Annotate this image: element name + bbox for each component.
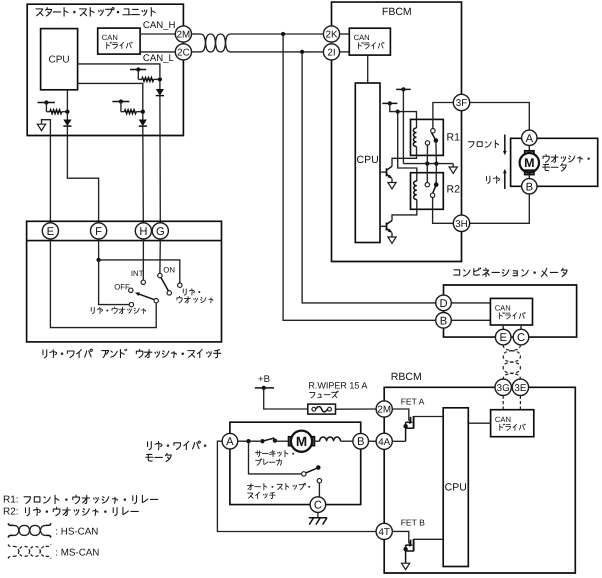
connector pin 4A bbox=[376, 433, 392, 449]
inductor (thermal coil) bbox=[320, 437, 341, 441]
connector pin H bbox=[135, 223, 151, 239]
wire CAN_L tap to meter D bbox=[302, 52, 435, 303]
switch contact washer-right bbox=[178, 283, 182, 287]
circuit breaker bbox=[260, 439, 264, 443]
resistor (F pull) bbox=[46, 111, 50, 113]
connector pin D bbox=[436, 295, 452, 311]
wire CPU to node G1 bbox=[78, 64, 160, 77]
wire tick T2 to node R bbox=[390, 103, 396, 111]
connector pin 3H bbox=[453, 215, 469, 231]
svg-text:R1: R1 bbox=[447, 132, 461, 144]
wire tick T1 to ground row bbox=[402, 89, 404, 163]
relay R2 contact (to 3H) bbox=[430, 193, 434, 197]
relay R2 armature bbox=[433, 185, 436, 193]
wire Q2 emitter to ground bbox=[391, 233, 393, 237]
ground (Q2) bbox=[388, 237, 396, 243]
wire tick to resistor G bbox=[137, 70, 139, 80]
diode D3 bbox=[156, 89, 164, 96]
rear wiper and washer switch box bbox=[27, 221, 222, 342]
svg-text:CAN: CAN bbox=[354, 33, 370, 42]
auto-stop switch contact to C bbox=[317, 479, 321, 483]
washer switch blade (ON) bbox=[161, 278, 168, 291]
connector pin B (meter) bbox=[436, 313, 452, 329]
svg-text:4T: 4T bbox=[378, 527, 389, 538]
connector pin G bbox=[152, 223, 168, 239]
connector pin 2M bbox=[175, 26, 191, 42]
connector pin B (wiper motor) bbox=[353, 433, 369, 449]
svg-text:2M: 2M bbox=[177, 30, 191, 41]
wire breaker to motor bbox=[275, 440, 288, 442]
switch contact washer-left bbox=[129, 302, 133, 306]
svg-text:FBCM: FBCM bbox=[382, 6, 412, 18]
diode D2 bbox=[139, 120, 147, 127]
node tick G bbox=[130, 69, 146, 71]
connector pin 3F bbox=[453, 94, 469, 110]
wire 3F to R1 contact bbox=[433, 103, 453, 129]
wire diode D2 to connector H bbox=[142, 126, 145, 223]
svg-text:FET A: FET A bbox=[401, 397, 425, 407]
CPU U3 box (RBCM) bbox=[443, 408, 468, 567]
junction node CAN_H tap bbox=[281, 32, 285, 36]
svg-text:ON: ON bbox=[163, 266, 175, 275]
svg-text:D: D bbox=[439, 298, 447, 310]
legend HS-CAN twisted pair symbol bbox=[8, 523, 13, 525]
svg-text:2K: 2K bbox=[326, 30, 338, 41]
svg-text:B: B bbox=[357, 436, 364, 448]
wire node G1 to diode bbox=[159, 82, 161, 90]
junction node CAN_L tap bbox=[300, 50, 304, 54]
label auto-stop switch (katakana) bbox=[247, 484, 253, 490]
svg-text:CAN: CAN bbox=[495, 303, 511, 312]
wire A to breaker bbox=[238, 440, 260, 442]
auto-stop switch contact left bbox=[302, 472, 306, 476]
rear motor brush right bbox=[311, 437, 315, 446]
connector pin C (meter) bbox=[513, 329, 529, 345]
wire F to node F2 bbox=[98, 239, 100, 260]
node tick F bbox=[38, 102, 55, 104]
wire ground row to ground bbox=[452, 164, 454, 167]
dashed wire 3E to CAN driver (RBCM) bbox=[519, 396, 521, 410]
resistor (H pull) bbox=[121, 111, 125, 113]
node tick H bbox=[112, 101, 129, 103]
FET B mosfet bbox=[392, 531, 410, 542]
svg-text:F: F bbox=[95, 226, 102, 238]
dashed wire 3G to CAN driver (RBCM) bbox=[502, 396, 504, 410]
node tick T1 bbox=[396, 88, 411, 90]
svg-text:3G: 3G bbox=[497, 383, 510, 394]
svg-text:R2: R2 bbox=[447, 184, 461, 196]
svg-text:CAN_H: CAN_H bbox=[143, 20, 176, 31]
CAN driver box (combination meter) bbox=[490, 298, 532, 325]
rear wiper motor M2 bbox=[291, 431, 312, 452]
svg-text:2I: 2I bbox=[327, 47, 335, 58]
wire H to INT contact bbox=[142, 239, 144, 280]
connector pin A (wiper motor) bbox=[222, 433, 238, 449]
CAN driver box (RBCM) bbox=[491, 410, 534, 437]
switch contact OFF bbox=[129, 288, 133, 292]
connector pin 2M (RBCM) bbox=[376, 401, 392, 417]
wire node A1 to auto-stop switch bbox=[249, 441, 302, 474]
wire R2 coil to Q2 collector bbox=[392, 200, 417, 221]
svg-text:M: M bbox=[524, 156, 534, 170]
transistor Q1 bbox=[380, 171, 387, 173]
connector pin F bbox=[91, 223, 107, 239]
relay R1 coil bbox=[413, 128, 416, 147]
wire E to wiper pivot bbox=[50, 239, 156, 328]
washer motor brush bottom bbox=[525, 170, 534, 174]
wire CAN driver to C bbox=[520, 325, 522, 329]
wire node R to relay R1 coil bbox=[398, 112, 417, 128]
ground (relay row) bbox=[449, 167, 457, 173]
svg-text:CAN: CAN bbox=[102, 33, 118, 42]
washer motor M1 bbox=[520, 153, 539, 172]
svg-text:R1:: R1: bbox=[3, 495, 19, 506]
start-stop unit box bbox=[27, 4, 183, 135]
wire CAN_H bus right bbox=[231, 33, 323, 35]
svg-text:H: H bbox=[139, 226, 147, 238]
FET A mosfet bbox=[392, 409, 410, 420]
CPU U1 box (start-stop unit) bbox=[41, 29, 78, 90]
relay R1 box bbox=[411, 119, 444, 155]
node +B terminal bbox=[255, 387, 274, 389]
svg-text:RBCM: RBCM bbox=[391, 371, 422, 383]
wire C to chassis ground bbox=[317, 512, 319, 517]
wire 2K to CAN driver bbox=[340, 33, 350, 35]
relay R1 contact (to 3F) bbox=[431, 129, 435, 133]
label front (katakana) with arrow bbox=[468, 142, 474, 148]
wire Q1 emitter to ground bbox=[391, 178, 393, 182]
wire R1 pivot to ground row bbox=[435, 141, 438, 164]
junction node A1 bbox=[246, 439, 250, 443]
wire ground row to R2 contact bbox=[426, 164, 428, 183]
junction node FET B source bbox=[403, 547, 407, 551]
junction node GR1 bbox=[425, 161, 429, 165]
label circuit breaker (katakana) bbox=[255, 451, 261, 457]
wire 4A to FET A source bbox=[392, 440, 405, 442]
wire ground to connector E bbox=[42, 120, 51, 223]
ground (FET B) bbox=[402, 563, 410, 569]
wire coil to B bbox=[341, 440, 353, 442]
svg-text:OFF: OFF bbox=[114, 282, 130, 291]
connector pin 3E bbox=[512, 379, 528, 395]
connector pin B (washer) bbox=[522, 179, 537, 194]
svg-text:3F: 3F bbox=[456, 98, 467, 109]
connector pin 4T bbox=[376, 523, 392, 539]
junction node G1 bbox=[158, 77, 162, 81]
svg-text:E: E bbox=[47, 226, 54, 238]
wire wiper A to 4T bbox=[217, 441, 376, 531]
connector pin E (meter) bbox=[495, 329, 511, 345]
connector pin 3G bbox=[495, 379, 511, 395]
wire CPU to node H1 bbox=[78, 83, 143, 109]
svg-text:CPU: CPU bbox=[445, 482, 467, 494]
wire node H1 to diode bbox=[142, 114, 144, 120]
wire R1 contact to ground row bbox=[426, 145, 428, 164]
connector pin A (washer) bbox=[522, 130, 537, 145]
CAN driver box (start-stop unit) bbox=[98, 28, 140, 54]
svg-text:CPU: CPU bbox=[49, 54, 70, 65]
wire CPU to CAN driver (RBCM) bbox=[468, 422, 490, 424]
twisted pair MS-CAN meter to RBCM (dashed) bbox=[503, 345, 520, 379]
wire CAN_H bus left bbox=[192, 33, 201, 35]
wire node F2 down to washer contact left bbox=[99, 260, 130, 305]
svg-text:CAN_L: CAN_L bbox=[143, 53, 175, 64]
switch header line bbox=[27, 240, 222, 242]
wire washer motor to B bbox=[528, 175, 530, 179]
wire 2I to CAN driver bbox=[340, 51, 350, 53]
washer motor box bbox=[511, 138, 598, 186]
relay R1 contact NO bbox=[425, 141, 429, 145]
diode D1 bbox=[63, 120, 71, 127]
washer motor brush top bbox=[525, 151, 534, 155]
wire R1 coil to Q1 collector bbox=[392, 147, 417, 167]
connector pin E bbox=[42, 223, 58, 239]
svg-text:G: G bbox=[156, 226, 165, 238]
svg-text:2M: 2M bbox=[377, 405, 391, 416]
svg-text:FET B: FET B bbox=[401, 517, 425, 527]
wire wiper B to 4A bbox=[369, 440, 377, 442]
wire motor to coil bbox=[314, 440, 319, 442]
svg-text:CPU: CPU bbox=[357, 154, 379, 166]
label fuse (katakana) bbox=[310, 393, 315, 398]
label rear (katakana) with arrow bbox=[487, 176, 490, 183]
CPU U2 box (FBCM) bbox=[355, 83, 380, 243]
resistor (G pull) bbox=[138, 78, 142, 80]
connector pin 2I bbox=[323, 44, 339, 60]
connector pin C (wiper motor) bbox=[310, 497, 326, 513]
wire CAN driver to 2C bbox=[140, 51, 175, 53]
wire +B to fuse bbox=[264, 388, 308, 409]
rear wiper motor box bbox=[230, 422, 361, 504]
label washer motor (katakana) bbox=[543, 155, 549, 163]
svg-text:A: A bbox=[226, 436, 234, 448]
wire G to ON contact bbox=[159, 239, 161, 273]
CAN driver box (FBCM) bbox=[349, 28, 390, 55]
switch contact ON bbox=[158, 273, 162, 277]
junction node R bbox=[396, 109, 400, 113]
svg-text:B: B bbox=[440, 315, 447, 327]
label rear washer bottom (katakana) bbox=[91, 307, 94, 313]
fuse F1 bbox=[308, 404, 336, 414]
wire tick to resistor H bbox=[120, 102, 122, 112]
label combination meter (katakana) bbox=[454, 270, 460, 275]
wire FET B drain to CPU bbox=[414, 538, 444, 540]
svg-text:R2:: R2: bbox=[3, 507, 19, 518]
svg-text:3H: 3H bbox=[455, 219, 468, 230]
connector pin 2C bbox=[175, 44, 191, 60]
svg-text:3E: 3E bbox=[514, 383, 526, 394]
wire A to washer motor bbox=[528, 146, 530, 152]
junction node F1 bbox=[65, 110, 69, 114]
chassis ground (wiper motor) bbox=[309, 517, 327, 519]
junction node FET A source bbox=[403, 424, 407, 428]
rear motor brush left bbox=[289, 437, 293, 446]
node tick T2 bbox=[382, 102, 397, 104]
wire node R to relay R2 coil bbox=[398, 112, 417, 181]
wire diode D1 to connector F bbox=[67, 126, 98, 223]
junction node F2 bbox=[96, 258, 100, 262]
wire washer B to 3H bbox=[470, 194, 530, 223]
svg-text:2C: 2C bbox=[177, 47, 190, 58]
twisted pair HS-CAN bus bbox=[201, 34, 231, 52]
wire ground row to R2 pivot bbox=[435, 164, 437, 185]
svg-text:+B: +B bbox=[258, 374, 270, 385]
wire CAN driver to CPU (FBCM) bbox=[367, 55, 369, 83]
wire auto-stop contact to C bbox=[318, 483, 320, 497]
svg-text:A: A bbox=[526, 133, 534, 145]
relay R1 armature bbox=[432, 133, 436, 141]
wire B to CAN driver (meter) bbox=[451, 319, 490, 321]
switch contact INT bbox=[141, 280, 145, 284]
wire CAN driver to 2M bbox=[140, 33, 175, 35]
wire CAN driver to E bbox=[502, 325, 504, 329]
FBCM box bbox=[332, 2, 462, 261]
junction node H1 bbox=[141, 110, 145, 114]
wire CAN_L bus left bbox=[192, 51, 201, 53]
svg-text:E: E bbox=[499, 332, 506, 344]
svg-text:CAN: CAN bbox=[495, 415, 511, 424]
svg-text:INT: INT bbox=[131, 269, 144, 278]
ground row wire (FBCM) bbox=[403, 163, 453, 165]
wire R2 contact to 3H bbox=[433, 198, 454, 224]
svg-text:: HS-CAN: : HS-CAN bbox=[55, 526, 98, 537]
svg-text:B: B bbox=[526, 181, 533, 193]
wire FET A drain to CPU bbox=[414, 416, 444, 418]
relay R2 contact (grounded) bbox=[425, 183, 429, 187]
wire node F2 to washer contact right bbox=[99, 260, 180, 283]
junction node GR2 bbox=[434, 161, 438, 165]
legend MS-CAN twisted pair symbol (dashed) bbox=[8, 544, 13, 546]
svg-text:C: C bbox=[314, 500, 322, 512]
label start-stop unit (katakana) bbox=[36, 9, 43, 16]
wiper switch blade with arrow bbox=[138, 294, 155, 300]
svg-text:R.WIPER 15 A: R.WIPER 15 A bbox=[308, 381, 367, 391]
wire 3F to washer motor A bbox=[470, 103, 530, 131]
RBCM box bbox=[384, 387, 575, 573]
wire D to CAN driver (meter) bbox=[451, 302, 490, 304]
svg-text:: MS-CAN: : MS-CAN bbox=[55, 548, 99, 559]
label rear washer right (katakana) bbox=[183, 289, 186, 295]
svg-text:M: M bbox=[296, 434, 307, 449]
wire fuse to 2M (RBCM) bbox=[336, 408, 377, 410]
transistor Q2 bbox=[380, 225, 387, 227]
switch contact wiper pivot bbox=[154, 299, 158, 303]
wire CAN_H tap to meter B bbox=[283, 34, 435, 320]
ground (start-stop unit) bbox=[37, 124, 45, 130]
ground (Q1) bbox=[388, 183, 396, 189]
connector pin 2K bbox=[323, 26, 339, 42]
wire node F1 to diode bbox=[66, 114, 68, 120]
svg-text:4A: 4A bbox=[378, 437, 390, 448]
svg-text:C: C bbox=[517, 332, 525, 344]
caption rear wiper and washer switch (katakana) bbox=[43, 350, 47, 358]
switch contact ON-blade end bbox=[167, 291, 171, 295]
wire CPU to node F1 bbox=[66, 90, 68, 110]
wire CAN_L bus right bbox=[231, 51, 323, 53]
combination meter box bbox=[444, 285, 577, 337]
relay R2 coil bbox=[414, 181, 417, 200]
wire tick to resistor bbox=[45, 103, 47, 112]
label rear wiper motor (katakana) bbox=[148, 442, 152, 450]
wire diode D3 to connector G bbox=[159, 96, 161, 223]
relay R2 box bbox=[411, 173, 444, 210]
auto-stop switch blade bbox=[306, 468, 317, 473]
